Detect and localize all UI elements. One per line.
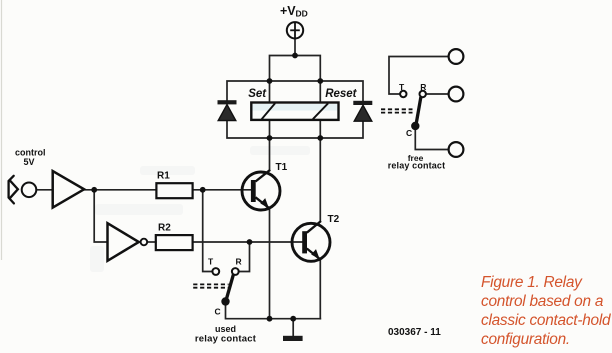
wire buffer out to R1 bbox=[84, 189, 156, 191]
svg-text:T1: T1 bbox=[276, 162, 288, 173]
used contact terminal T bbox=[212, 268, 219, 275]
wire R1 to T1 base bbox=[193, 189, 251, 191]
svg-text:R1: R1 bbox=[157, 171, 170, 182]
faint scan ghosting bbox=[90, 146, 310, 272]
free contact pole circle middle bbox=[449, 87, 464, 102]
used contact arm bbox=[226, 275, 233, 301]
used contact actuator dashes bbox=[193, 284, 228, 287]
input circle bbox=[22, 183, 37, 198]
free contact terminal R bbox=[420, 91, 426, 97]
relay box diagonal right bbox=[313, 103, 328, 119]
wire T2 emitter down bbox=[319, 260, 321, 319]
svg-text:T: T bbox=[208, 256, 214, 266]
wire diode top rail bbox=[227, 81, 363, 101]
free contact pole circle top bbox=[449, 49, 464, 64]
buffer gate IC1a bbox=[53, 171, 84, 208]
svg-text:T2: T2 bbox=[328, 214, 340, 225]
wire reset coil to T2 collector bbox=[319, 120, 321, 221]
svg-text:relay contact: relay contact bbox=[195, 333, 257, 344]
figure caption bbox=[481, 273, 610, 349]
svg-text:+V: +V bbox=[280, 4, 296, 18]
wire contact R up to T2 base node bbox=[239, 242, 250, 272]
wire free contact C down bbox=[415, 130, 448, 150]
svg-text:R: R bbox=[420, 82, 426, 92]
svg-text:control: control bbox=[15, 148, 46, 158]
relay coil box bbox=[251, 103, 338, 120]
scan cyan band in relay box bbox=[253, 104, 338, 111]
relay box diagonal left bbox=[262, 103, 276, 119]
wire free contact R to pole bbox=[426, 93, 449, 95]
svg-text:R2: R2 bbox=[158, 223, 171, 234]
free contact common dot C bbox=[411, 122, 419, 130]
supply symbol +VDD bbox=[287, 22, 303, 38]
svg-text:5V: 5V bbox=[24, 157, 35, 167]
wire VDD stem bbox=[294, 39, 296, 56]
diode D2 right flyback bbox=[353, 101, 372, 121]
inverter bubble bbox=[141, 239, 148, 246]
junction node reset rail bottom bbox=[317, 135, 323, 141]
wire input circle to buffer bbox=[36, 189, 52, 191]
svg-text:Set: Set bbox=[248, 88, 267, 100]
svg-text:C: C bbox=[215, 306, 221, 316]
wire T1 emitter down bbox=[269, 209, 271, 319]
wire branch down to inverter bbox=[94, 190, 107, 242]
ground symbol bbox=[283, 336, 303, 341]
svg-text:R: R bbox=[236, 256, 242, 266]
wire set coil to T1 collector bbox=[269, 120, 271, 170]
node emitter T1 at ground rail bbox=[267, 316, 273, 322]
free contact pole circle bottom bbox=[449, 142, 464, 157]
transistor T2 bbox=[292, 221, 330, 261]
free contact arm bbox=[416, 97, 421, 125]
transistor T1 bbox=[242, 170, 280, 210]
node after R1 bbox=[200, 187, 206, 193]
svg-text:used: used bbox=[215, 324, 236, 334]
junction node set rail bottom bbox=[267, 135, 273, 141]
wire top rail bbox=[270, 56, 321, 103]
svg-text:relay contact: relay contact bbox=[388, 161, 445, 171]
resistor R2 bbox=[156, 235, 193, 250]
wire inverter bubble to R2 bbox=[147, 241, 156, 243]
free contact actuator dashes bbox=[381, 109, 413, 112]
svg-text:T: T bbox=[399, 82, 405, 92]
diode D1 left flyback bbox=[218, 100, 237, 120]
resistor R1 bbox=[156, 183, 192, 198]
svg-text:C: C bbox=[406, 128, 412, 138]
svg-text:Reset: Reset bbox=[325, 88, 357, 100]
junction node reset rail top bbox=[317, 78, 323, 84]
inverter gate IC1b bbox=[108, 223, 139, 261]
ground node bbox=[290, 316, 296, 322]
scan page edge line bbox=[1, 0, 3, 260]
wire free contact top bbox=[389, 57, 449, 95]
node on T2 base wire bbox=[247, 239, 253, 245]
wire contact C to ground rail bbox=[226, 306, 321, 319]
wire R2 to T2 base bbox=[193, 241, 303, 243]
junction node at VDD rail bbox=[292, 53, 298, 59]
wire diode bottom rail bbox=[227, 121, 363, 138]
used contact terminal R bbox=[232, 268, 239, 275]
wire ground stem bbox=[292, 319, 294, 336]
input terminal symbol bbox=[9, 176, 18, 204]
free contact terminal T bbox=[400, 91, 406, 97]
node after buffer bbox=[91, 187, 97, 193]
junction node set rail top bbox=[267, 78, 273, 84]
wire R1 node down to contact T bbox=[203, 190, 213, 272]
svg-text:030367 - 11: 030367 - 11 bbox=[388, 327, 441, 338]
svg-text:DD: DD bbox=[296, 9, 308, 19]
used contact common dot C bbox=[221, 297, 229, 305]
